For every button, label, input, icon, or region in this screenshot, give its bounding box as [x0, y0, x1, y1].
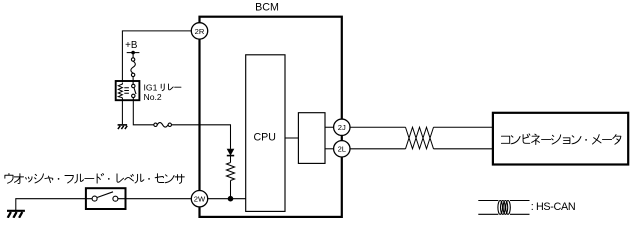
wire resistor to junction: [230, 181, 232, 199]
svg-text:No.2: No.2: [144, 92, 162, 102]
label combination meter: [501, 136, 509, 143]
relay switch contact: [132, 84, 136, 97]
legend twisted-pair symbol: [478, 201, 529, 215]
ground G2: [118, 125, 128, 129]
junction node: [228, 196, 234, 202]
svg-text:: HS-CAN: : HS-CAN: [531, 201, 576, 213]
sensor switch contacts: [92, 192, 118, 201]
wire CAN-H twist to meter: [434, 126, 493, 128]
CPU box: [246, 55, 285, 212]
resistor R1: [227, 163, 235, 181]
connector 2L: [334, 141, 350, 157]
wire CAN-L twist to meter: [434, 148, 493, 150]
wire fuse to relay: [132, 77, 134, 84]
wire ground to sensor switch: [16, 199, 92, 210]
diode D1: [227, 149, 234, 156]
wire 2R to +B branch: [122, 31, 191, 83]
CAN transceiver box: [298, 113, 325, 164]
wire 2W to CPU: [208, 198, 246, 200]
fuse F2 (circuit breaker, horizontal): [154, 123, 172, 128]
wire CAN-L 2L to twist: [350, 148, 406, 150]
connector 2J: [334, 119, 350, 135]
wire transceiver to 2L: [325, 148, 334, 150]
relay K1 box IG1 No.2: [116, 81, 140, 100]
svg-text:+B: +B: [125, 40, 138, 51]
washer fluid level sensor label: [5, 173, 13, 183]
BCM box U1: [200, 17, 342, 217]
combination meter box: [493, 113, 628, 165]
relay coil: [118, 83, 129, 98]
svg-text:2R: 2R: [195, 27, 205, 36]
svg-text:2W: 2W: [194, 195, 206, 204]
wire CAN-H 2J to twist: [350, 126, 406, 128]
ground G1: [7, 211, 25, 218]
svg-text:IG1: IG1: [144, 82, 158, 92]
wire +B to fuse: [132, 53, 134, 58]
svg-text:2J: 2J: [338, 123, 346, 132]
wire F2 into BCM to diode: [172, 125, 231, 149]
wire CPU to CAN transceiver: [285, 137, 298, 139]
wire diode to resistor: [230, 156, 232, 163]
twisted pair: [406, 127, 434, 149]
battery tap node +B: [127, 51, 140, 55]
connector 2R: [191, 23, 207, 39]
wire sensor to 2W: [118, 198, 191, 200]
wire transceiver to 2J: [325, 126, 334, 128]
svg-text:BCM: BCM: [255, 1, 279, 13]
fuse F1 (circuit breaker, vertical): [131, 58, 135, 77]
svg-text:CPU: CPU: [254, 132, 276, 144]
washer sensor switch box: [86, 188, 126, 209]
svg-text:2L: 2L: [338, 145, 346, 154]
connector 2W: [191, 191, 207, 207]
wire relay coil to ground: [121, 98, 123, 125]
wire relay switch to fuse F2: [133, 98, 153, 125]
